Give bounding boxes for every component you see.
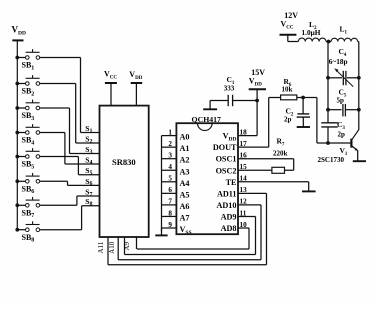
svg-text:L1: L1: [340, 25, 348, 36]
svg-text:5p: 5p: [337, 96, 345, 104]
svg-text:QCH417: QCH417: [192, 115, 222, 124]
svg-text:A0: A0: [180, 133, 190, 142]
svg-text:S4: S4: [85, 155, 92, 165]
svg-text:SB4: SB4: [22, 136, 35, 147]
svg-text:AD11: AD11: [217, 189, 237, 198]
svg-text:2p: 2p: [284, 116, 292, 124]
svg-text:A6: A6: [180, 202, 190, 211]
svg-text:TE: TE: [226, 178, 237, 187]
svg-text:A11: A11: [97, 241, 105, 253]
svg-text:8: 8: [168, 209, 172, 217]
svg-text:AD10: AD10: [216, 201, 236, 210]
svg-text:VDD: VDD: [249, 77, 262, 88]
svg-text:A7: A7: [180, 213, 190, 222]
svg-text:5: 5: [168, 175, 172, 183]
svg-text:S2: S2: [85, 134, 92, 144]
svg-text:VCC: VCC: [104, 70, 117, 81]
svg-text:S8: S8: [85, 197, 92, 207]
svg-text:2SC1730: 2SC1730: [318, 156, 345, 164]
svg-text:S3: S3: [85, 145, 92, 155]
svg-text:OSC2: OSC2: [216, 166, 237, 175]
svg-text:VDD: VDD: [223, 132, 237, 143]
svg-text:7: 7: [168, 198, 172, 206]
svg-text:SR830: SR830: [112, 157, 136, 167]
svg-text:SB2: SB2: [22, 87, 35, 98]
svg-text:SB5: SB5: [22, 160, 35, 171]
svg-text:S1: S1: [85, 124, 92, 134]
svg-text:SB8: SB8: [22, 233, 35, 244]
svg-text:VDD: VDD: [12, 25, 26, 37]
svg-text:VDD: VDD: [129, 70, 142, 81]
svg-text:2: 2: [168, 140, 172, 148]
svg-text:A1: A1: [180, 144, 190, 153]
svg-text:A4: A4: [180, 179, 190, 188]
svg-text:S5: S5: [85, 166, 92, 176]
svg-text:3: 3: [168, 152, 172, 160]
svg-text:A3: A3: [180, 167, 190, 176]
svg-text:V1: V1: [340, 146, 348, 157]
svg-text:AD8: AD8: [221, 224, 237, 233]
svg-text:6~18p: 6~18p: [329, 57, 348, 66]
svg-text:1.0μH: 1.0μH: [302, 28, 321, 37]
svg-text:S6: S6: [85, 177, 92, 187]
svg-text:VCC: VCC: [281, 20, 294, 31]
svg-text:10k: 10k: [282, 86, 293, 94]
svg-text:15V: 15V: [251, 68, 265, 77]
svg-text:DOUT: DOUT: [213, 143, 237, 152]
svg-text:SB3: SB3: [22, 111, 35, 122]
svg-text:R7: R7: [277, 137, 285, 148]
svg-text:A10: A10: [108, 241, 116, 254]
svg-text:AD9: AD9: [221, 212, 237, 221]
svg-text:12V: 12V: [284, 11, 298, 20]
svg-text:220k: 220k: [273, 150, 288, 158]
svg-text:6: 6: [168, 186, 172, 194]
svg-text:2p: 2p: [338, 130, 346, 138]
svg-text:SB6: SB6: [22, 185, 35, 196]
svg-text:4: 4: [168, 163, 172, 171]
svg-text:SB1: SB1: [22, 61, 35, 72]
svg-text:333: 333: [224, 85, 235, 93]
svg-text:SB7: SB7: [22, 209, 35, 220]
svg-text:OSC1: OSC1: [216, 155, 237, 164]
svg-text:9: 9: [168, 221, 172, 229]
svg-text:A5: A5: [180, 190, 190, 199]
svg-text:1: 1: [168, 128, 172, 136]
svg-text:A9: A9: [123, 241, 131, 250]
svg-text:A2: A2: [180, 156, 190, 165]
